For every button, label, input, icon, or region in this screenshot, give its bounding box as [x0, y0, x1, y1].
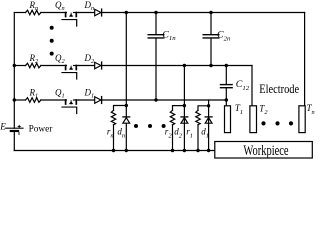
- capacitor C1n: [148, 13, 164, 101]
- wire r1 hook: [198, 106, 209, 111]
- wire node-2 drop (to r2 d2 pair): [183, 66, 185, 106]
- ellipsis dots right row: [261, 121, 265, 125]
- diode d1: [205, 106, 212, 151]
- electrode Tn: [299, 106, 305, 133]
- junction node bus-rn: [112, 149, 115, 152]
- wire row2 Q-to-D: [79, 65, 95, 67]
- junction node bus-row3: [13, 98, 16, 101]
- transistor Q1: [62, 100, 79, 114]
- ellipsis dots left column: [50, 26, 54, 30]
- junction node row2-C12: [225, 64, 228, 67]
- wire T1 stub: [225, 100, 227, 106]
- ellipsis dots bottom row: [134, 124, 138, 128]
- wire row1 lead: [14, 12, 25, 14]
- junction node bus-d2: [183, 149, 186, 152]
- junction node row1-pairn: [125, 11, 128, 14]
- junction node bus-r1: [196, 149, 199, 152]
- diode Dn: [95, 9, 102, 16]
- wire left bus below battery: [13, 131, 15, 150]
- junction node pairn split: [125, 104, 128, 107]
- wire bottom bus: [14, 150, 215, 152]
- wire row2 lead: [14, 65, 25, 67]
- junction node row3-C12: [225, 98, 228, 101]
- wire row2 R-to-Q: [41, 65, 67, 67]
- transistor Qn: [62, 13, 79, 27]
- diode D1: [95, 97, 102, 104]
- resistor r2: [170, 110, 174, 125]
- junction node bus-d1: [207, 149, 210, 152]
- wire row3 D-to-end: [102, 99, 227, 101]
- junction node bus-row2: [13, 64, 16, 67]
- wire node-n drop (to rn dn pair): [125, 13, 127, 106]
- wire T2 stub: [251, 66, 253, 106]
- transistor Q2: [62, 66, 79, 80]
- capacitor C2n: [203, 13, 219, 66]
- svg-text:E: E: [0, 122, 6, 132]
- wire row3 R-to-Q: [41, 99, 67, 101]
- capacitor C12: [221, 66, 233, 101]
- diode dn: [123, 106, 130, 151]
- wire r2 hook: [173, 106, 185, 111]
- diode D2: [95, 62, 102, 69]
- junction node bus-dn: [125, 149, 128, 152]
- wire row3 lead: [14, 99, 25, 101]
- resistor R2: [26, 63, 41, 68]
- resistor R1: [26, 98, 41, 103]
- junction node pair1 split: [207, 104, 210, 107]
- resistor Rn: [26, 10, 41, 15]
- junction node row1-C1n: [154, 11, 157, 14]
- svg-text:Power: Power: [29, 124, 54, 134]
- junction node pair2 split: [183, 104, 186, 107]
- svg-text:Workpiece: Workpiece: [243, 141, 288, 158]
- wire rn to bus: [113, 125, 115, 151]
- wire row2 D-to-corner: [102, 65, 252, 67]
- junction node row3-C1n: [154, 98, 157, 101]
- junction node row1-C2n: [209, 11, 212, 14]
- wire row3 Q-to-D: [79, 99, 95, 101]
- wire r1 to bus: [197, 125, 199, 151]
- resistor rn: [111, 110, 115, 125]
- wire r2 to bus: [172, 125, 174, 151]
- junction node row2-pair2: [183, 64, 186, 67]
- wire row1 D-to-corner: [102, 12, 305, 14]
- junction node bus-r2: [171, 149, 174, 152]
- workpiece box: [215, 142, 312, 159]
- wire node-1 drop (to r1 d1 pair): [208, 100, 210, 106]
- diode d2: [181, 106, 188, 151]
- resistor r1: [196, 110, 200, 125]
- battery E: [6, 125, 23, 134]
- wire right vertical to Tn: [304, 13, 306, 106]
- wire row1 Q-to-D: [79, 12, 95, 14]
- wire row1 R-to-Q: [41, 12, 67, 14]
- wire rn hook: [114, 106, 127, 111]
- svg-text:Electrode: Electrode: [259, 82, 299, 96]
- electrode T2: [250, 106, 257, 133]
- junction node row2-C2n: [209, 64, 212, 67]
- wire left bus vertical: [13, 13, 15, 129]
- electrode T1: [225, 106, 231, 133]
